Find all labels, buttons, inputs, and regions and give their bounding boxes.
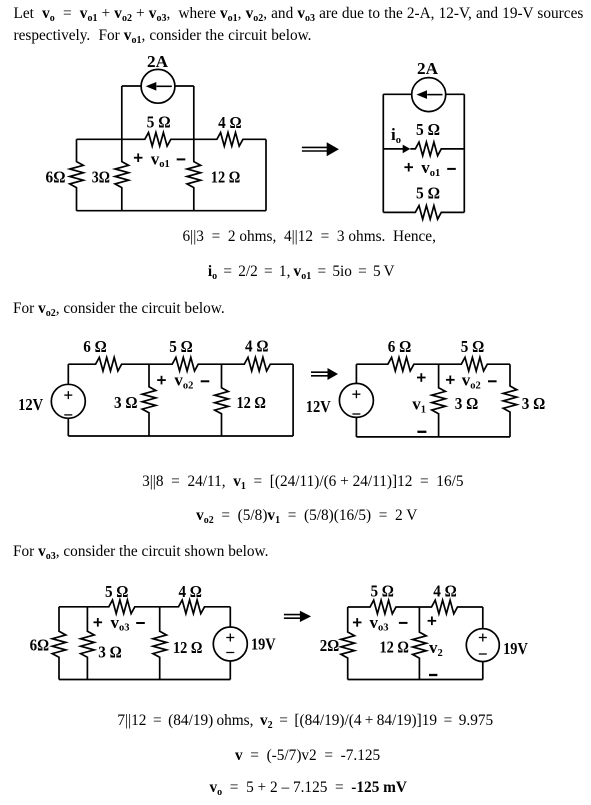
svg-text:6 Ω: 6 Ω xyxy=(83,337,107,356)
svg-text:12V: 12V xyxy=(306,397,332,416)
svg-text:6 Ω: 6 Ω xyxy=(388,337,412,356)
svg-text:3 Ω: 3 Ω xyxy=(114,393,138,412)
svg-text:v1: v1 xyxy=(412,395,426,416)
svg-text:19V: 19V xyxy=(251,635,276,654)
svg-text:5 Ω: 5 Ω xyxy=(147,113,171,132)
svg-text:3 Ω: 3 Ω xyxy=(522,394,546,413)
svg-text:2Ω: 2Ω xyxy=(320,636,340,655)
svg-text:12 Ω: 12 Ω xyxy=(236,393,266,412)
svg-text:4 Ω: 4 Ω xyxy=(178,582,202,601)
svg-text:vo2: vo2 xyxy=(462,371,481,392)
svg-text:2A: 2A xyxy=(417,59,439,78)
svg-text:19V: 19V xyxy=(503,639,528,658)
svg-text:12 Ω: 12 Ω xyxy=(173,638,203,657)
svg-text:6Ω: 6Ω xyxy=(46,168,66,187)
svg-text:12 Ω: 12 Ω xyxy=(211,167,241,186)
svg-text:3 Ω: 3 Ω xyxy=(455,394,479,413)
svg-text:io: io xyxy=(391,125,401,146)
svg-text:12V: 12V xyxy=(18,395,44,414)
svg-text:2A: 2A xyxy=(147,52,169,71)
svg-text:5 Ω: 5 Ω xyxy=(416,120,440,139)
svg-text:3Ω: 3Ω xyxy=(92,168,110,187)
svg-text:4 Ω: 4 Ω xyxy=(218,113,242,132)
svg-text:4 Ω: 4 Ω xyxy=(245,337,269,356)
svg-text:5 Ω: 5 Ω xyxy=(169,337,193,356)
svg-text:v2: v2 xyxy=(429,638,443,659)
svg-text:4 Ω: 4 Ω xyxy=(433,582,457,601)
svg-text:6Ω: 6Ω xyxy=(30,636,50,655)
svg-text:3 Ω: 3 Ω xyxy=(98,643,122,662)
svg-text:vo1: vo1 xyxy=(421,158,440,179)
svg-text:vo1: vo1 xyxy=(151,149,170,170)
svg-text:5 Ω: 5 Ω xyxy=(461,337,485,356)
svg-text:vo2: vo2 xyxy=(174,371,193,392)
svg-text:5 Ω: 5 Ω xyxy=(416,183,440,202)
svg-text:12 Ω: 12 Ω xyxy=(379,638,409,657)
svg-text:vo3: vo3 xyxy=(370,613,389,634)
svg-text:5 Ω: 5 Ω xyxy=(370,582,394,601)
svg-text:5 Ω: 5 Ω xyxy=(105,582,129,601)
svg-text:vo3: vo3 xyxy=(111,613,130,634)
